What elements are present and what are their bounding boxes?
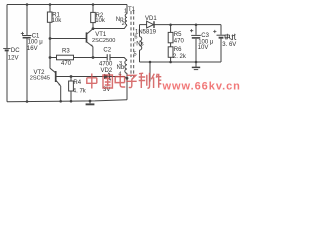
svg-text:R4: R4 bbox=[73, 80, 81, 86]
svg-text:www.66kv.cn: www.66kv.cn bbox=[162, 81, 241, 93]
svg-text:12V: 12V bbox=[8, 55, 19, 61]
svg-text:VD1: VD1 bbox=[145, 16, 157, 22]
svg-text:5: 5 bbox=[134, 51, 137, 57]
svg-text:T1: T1 bbox=[128, 7, 136, 13]
svg-text:3. 6V: 3. 6V bbox=[222, 42, 236, 48]
svg-text:6: 6 bbox=[134, 35, 137, 41]
svg-text:470: 470 bbox=[61, 61, 72, 67]
svg-text:C2: C2 bbox=[103, 47, 111, 53]
svg-text:4. 7k: 4. 7k bbox=[73, 88, 87, 94]
svg-text:4700: 4700 bbox=[99, 62, 113, 68]
svg-text:470: 470 bbox=[174, 39, 185, 45]
svg-text:R6: R6 bbox=[174, 47, 182, 53]
svg-text:R5: R5 bbox=[174, 32, 182, 38]
svg-text:C3: C3 bbox=[201, 33, 209, 39]
svg-text:2SC2500: 2SC2500 bbox=[92, 38, 115, 44]
svg-text:R3: R3 bbox=[62, 49, 70, 55]
svg-text:2. 2k: 2. 2k bbox=[173, 54, 187, 60]
svg-text:2SC945: 2SC945 bbox=[30, 75, 50, 81]
svg-text:DC: DC bbox=[11, 48, 20, 54]
svg-text:Nb: Nb bbox=[117, 65, 125, 71]
svg-text:1: 1 bbox=[124, 9, 127, 15]
svg-text:100 μ: 100 μ bbox=[28, 39, 44, 45]
svg-text:VD2: VD2 bbox=[101, 68, 113, 74]
svg-text:16V: 16V bbox=[27, 46, 38, 52]
svg-text:Ns: Ns bbox=[136, 41, 143, 47]
svg-text:1N5819: 1N5819 bbox=[135, 29, 157, 35]
svg-text:10k: 10k bbox=[95, 18, 106, 24]
svg-text:2: 2 bbox=[122, 21, 125, 27]
svg-text:10k: 10k bbox=[52, 18, 63, 24]
svg-text:10V: 10V bbox=[198, 45, 209, 51]
